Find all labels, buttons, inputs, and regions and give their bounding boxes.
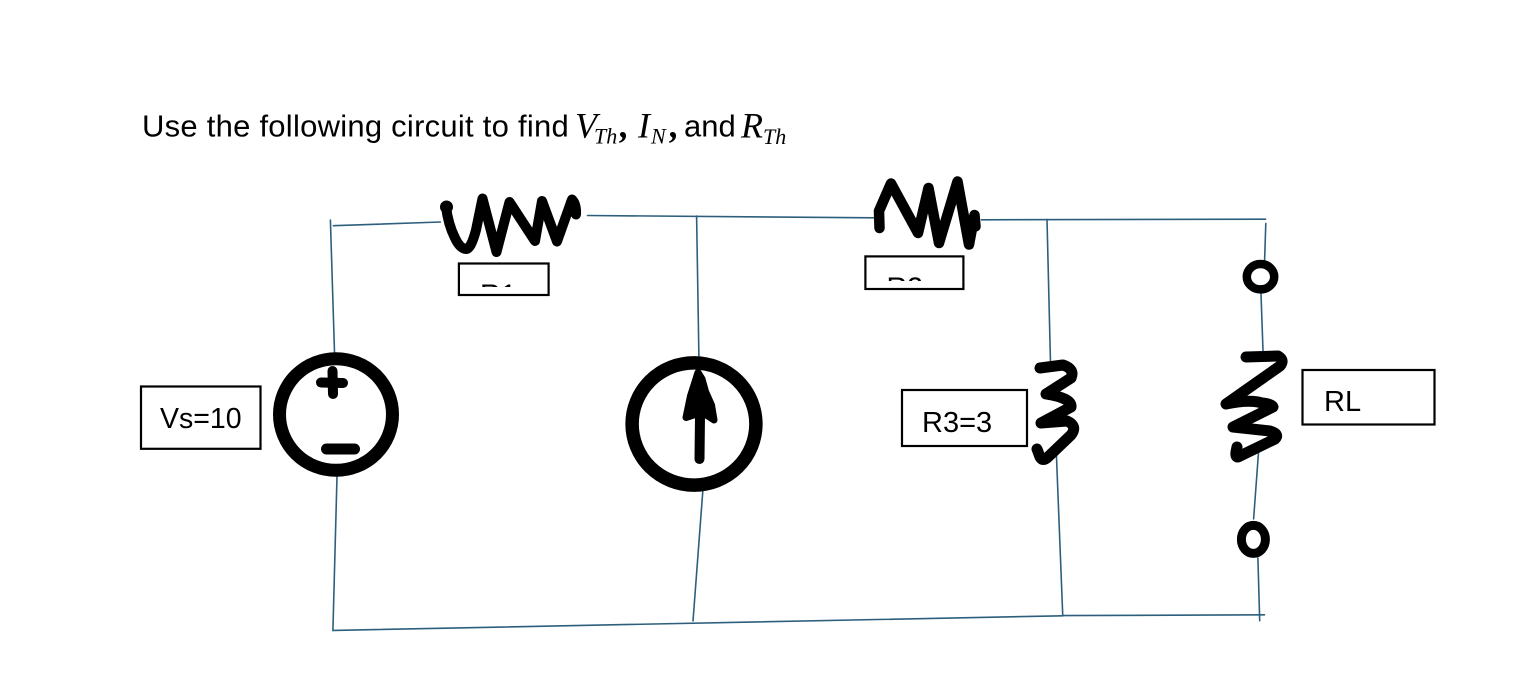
svg-text:I: I <box>637 106 652 146</box>
svg-text:Use the following circuit to f: Use the following circuit to find <box>142 109 569 144</box>
svg-text:,: , <box>669 106 679 146</box>
svg-text:Th: Th <box>594 124 617 149</box>
svg-text:RL: RL <box>1324 386 1361 418</box>
svg-text:Th: Th <box>763 124 786 149</box>
svg-text:R3=3: R3=3 <box>922 407 992 439</box>
svg-text:and: and <box>684 109 736 144</box>
svg-text:R: R <box>740 106 763 146</box>
svg-text:N: N <box>650 124 667 149</box>
svg-text:,: , <box>619 106 629 146</box>
svg-text:Vs=10: Vs=10 <box>160 403 242 435</box>
